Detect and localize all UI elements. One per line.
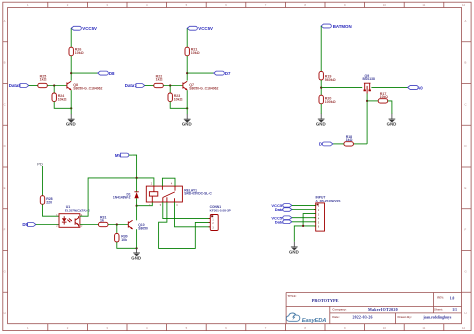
ground (Q10)	[131, 248, 141, 261]
svg-text:A0: A0	[417, 85, 423, 90]
svg-text:VCC5V: VCC5V	[198, 26, 213, 31]
transistor Q10 S8050	[128, 220, 148, 230]
svg-text:1k: 1k	[100, 219, 104, 223]
svg-text:GND: GND	[131, 255, 141, 260]
wire opto pin3 to R31	[80, 224, 99, 226]
svg-text:560kΩ: 560kΩ	[325, 78, 336, 82]
wire MV down to coil rail	[132, 155, 137, 178]
svg-text:H: H	[4, 311, 6, 315]
wire gate to R18	[353, 143, 367, 145]
frame row ticks left	[3, 42, 8, 293]
transistor Q9 BSS138	[363, 74, 375, 94]
wire junction down to R24	[53, 86, 55, 94]
node base/R24 junction	[53, 84, 55, 86]
connector CONN1 KF301-5.08-3P	[209, 205, 231, 230]
svg-text:Company:: Company:	[332, 308, 346, 312]
svg-text:12: 12	[462, 3, 466, 7]
wire collector to D8	[71, 72, 98, 74]
wire relay pin to CONN1 pin3	[175, 202, 211, 227]
svg-text:GND: GND	[182, 122, 192, 127]
node coil return junction	[136, 205, 138, 207]
svg-text:GND: GND	[66, 122, 76, 127]
svg-text:PD: PD	[37, 161, 43, 166]
svg-text:10kΩ: 10kΩ	[191, 51, 200, 55]
wire R25 to Q8 base	[47, 85, 66, 87]
svg-text:TITLE:: TITLE:	[288, 294, 297, 298]
title block Sheet label	[434, 308, 443, 312]
wire junction down to R23	[169, 86, 171, 94]
resistor R18 1k	[344, 135, 354, 146]
svg-text:GND: GND	[289, 249, 299, 254]
netflag D6	[319, 142, 333, 147]
node gate/R17 junction	[366, 100, 368, 102]
wire VCC5V to R26	[70, 29, 72, 48]
netflag VCC5V (INPUT pin4)	[271, 215, 292, 220]
svg-text:11: 11	[422, 326, 425, 330]
wire D5 to opto pin2	[36, 224, 59, 226]
wire R24 to emitter line	[54, 102, 71, 109]
wire gate to R17	[367, 100, 378, 102]
svg-text:VCC5V: VCC5V	[82, 26, 97, 31]
netflag VCC5V (INPUT pin1)	[271, 203, 292, 208]
wire R28 to opto pin1	[43, 204, 60, 216]
svg-text:10kΩ: 10kΩ	[174, 98, 183, 102]
svg-text:GND: GND	[387, 121, 397, 126]
svg-text:11: 11	[422, 3, 425, 7]
svg-text:PROTOTYPE: PROTOTYPE	[312, 298, 339, 303]
wire junction down to R30	[116, 225, 118, 234]
netflag MV	[115, 153, 132, 158]
resistor R20 100k	[319, 95, 336, 104]
svg-text:S8050: S8050	[138, 226, 148, 230]
ground (R20)	[316, 114, 326, 127]
relay RELAY1 SRD-05VDC-SL-C	[146, 183, 212, 207]
resistor R26 10k	[69, 47, 84, 56]
title block title value PROTOTYPE	[312, 298, 339, 303]
netflag A0	[408, 85, 424, 90]
svg-text:KF301-5.08-3P: KF301-5.08-3P	[210, 209, 231, 213]
resistor R21 10k	[185, 47, 200, 56]
node collector Q7 / D7	[186, 72, 188, 74]
EasyEDA logo	[286, 313, 326, 324]
netflag Data8 (INPUT pin2)	[275, 207, 292, 212]
svg-text:10kΩ: 10kΩ	[58, 98, 67, 102]
svg-text:Date:: Date:	[332, 315, 339, 319]
resistor R22 1k	[154, 74, 164, 87]
svg-text:Sheet:: Sheet:	[434, 308, 443, 312]
svg-text:100kΩ: 100kΩ	[325, 100, 336, 104]
wire R30 to emitter rail	[117, 242, 137, 248]
node emitter junction Q8	[70, 107, 72, 109]
node divider junction	[320, 87, 322, 89]
wire coil return to relay pin	[137, 202, 153, 206]
svg-text:EL357N(C)(TA)-G: EL357N(C)(TA)-G	[65, 209, 91, 213]
wire Data8 to R25	[29, 85, 38, 87]
resistor R30 10k	[115, 233, 128, 242]
wire Q9 gate down	[366, 94, 368, 144]
wire relay NC bridge	[162, 178, 175, 186]
wire relay NO loop to CONN1 pin2	[159, 202, 211, 248]
wire PD to R28	[42, 166, 44, 196]
resistor R28 220	[40, 196, 52, 205]
node emitter junction Q7	[186, 107, 188, 109]
diode D1 1N4148W-2	[113, 178, 139, 206]
frame column ticks top	[48, 2, 444, 7]
svg-text:REV:: REV:	[437, 296, 444, 300]
svg-text:BSS138: BSS138	[363, 77, 375, 81]
frame row ticks right	[462, 42, 472, 293]
wire VCC5V to pin4	[292, 217, 316, 219]
wire R18 to D6	[333, 143, 344, 145]
svg-text:S8050-G_C164062: S8050-G_C164062	[73, 87, 102, 91]
svg-text:SRD-05VDC-SL-C: SRD-05VDC-SL-C	[184, 192, 212, 196]
svg-text:EasyEDA: EasyEDA	[302, 318, 326, 324]
svg-text:1/1: 1/1	[452, 308, 457, 312]
node base/R30 junction	[116, 223, 118, 225]
title block lines	[286, 293, 461, 324]
svg-text:Data7: Data7	[125, 83, 138, 88]
title block Date label	[332, 315, 339, 319]
wire D1 junction to Q10 collector	[136, 206, 138, 218]
title block REV label	[437, 296, 444, 300]
title block TITLE label	[288, 294, 297, 298]
net label PD	[37, 161, 43, 166]
svg-text:1kΩ: 1kΩ	[156, 78, 163, 82]
frame column ticks bottom	[48, 324, 444, 331]
input port D5	[22, 222, 36, 227]
svg-text:Data8: Data8	[9, 83, 22, 88]
resistor R25 1k	[38, 74, 48, 87]
svg-text:A: A	[465, 19, 467, 23]
title block date value	[353, 315, 373, 319]
svg-text:G: G	[4, 270, 6, 274]
svg-text:10kΩ: 10kΩ	[75, 51, 84, 55]
wire BATMON to R19	[320, 26, 322, 71]
svg-text:MakerIOT2020: MakerIOT2020	[368, 307, 398, 312]
title block sheet value	[452, 308, 457, 312]
svg-text:F: F	[4, 228, 6, 232]
svg-text:1kΩ: 1kΩ	[40, 78, 47, 82]
wire R22 to Q7 base	[163, 85, 182, 87]
svg-text:10k: 10k	[121, 238, 127, 242]
svg-text:D: D	[4, 144, 6, 148]
node collector Q8 / D8	[70, 72, 72, 74]
svg-text:Drawn By:: Drawn By:	[398, 315, 412, 319]
svg-text:GND: GND	[316, 121, 326, 126]
wire pin3 to ground rail	[303, 214, 316, 226]
node MV rail junction	[136, 177, 138, 179]
wire Q8 emitter to GND	[70, 90, 72, 114]
svg-text:G: G	[465, 270, 467, 274]
wire R31 to Q10 base	[108, 224, 128, 226]
svg-text:2022-03-26: 2022-03-26	[353, 315, 373, 319]
svg-text:D7: D7	[225, 71, 231, 76]
svg-text:B: B	[465, 61, 467, 65]
title block Drawn By label	[398, 315, 412, 319]
wire Q9 source to A0	[371, 87, 407, 89]
netflag BATMON	[321, 24, 352, 29]
wire VCC5V to R21	[186, 29, 188, 48]
resistor R31 1k	[99, 215, 109, 226]
wire Q7 emitter to GND	[186, 90, 188, 114]
resistor R23 10k	[168, 93, 183, 102]
wire R21 to Q7 collector	[186, 56, 188, 81]
input port Data8	[9, 83, 29, 88]
svg-text:A: A	[4, 19, 6, 23]
netflag Data7 (INPUT pin5)	[275, 219, 292, 224]
node ground rail junction	[302, 225, 304, 227]
svg-text:1kΩ: 1kΩ	[346, 138, 353, 142]
svg-text:10: 10	[383, 326, 387, 330]
ground (Q8)	[66, 114, 76, 127]
wire collector to D7	[187, 72, 214, 74]
wire opto pin4 up to rail	[80, 178, 154, 216]
svg-text:A_XB-2540WV2S: A_XB-2540WV2S	[316, 199, 341, 203]
wire pin6 to ground rail	[294, 226, 315, 242]
netflag VCC5V (circuit Q8)	[71, 26, 97, 31]
resistor R24 10k	[52, 93, 67, 102]
svg-text:220: 220	[46, 201, 52, 205]
transistor Q8	[66, 81, 102, 90]
wire VCC5V to pin1	[292, 204, 316, 206]
title block company value	[368, 307, 398, 312]
netflag D8	[98, 71, 115, 76]
ground (R17)	[387, 114, 397, 127]
input port Data7	[125, 83, 145, 88]
wire R20 to GND	[320, 104, 322, 114]
netflag D7	[214, 71, 231, 76]
svg-text:D: D	[465, 144, 467, 148]
connector INPUT A_XB-2540WV2S	[314, 196, 341, 231]
wire R19 to R20	[320, 80, 322, 95]
svg-text:E: E	[4, 186, 6, 190]
svg-text:1.0: 1.0	[450, 296, 455, 300]
svg-text:E: E	[465, 186, 467, 190]
svg-text:jean.redelinghuys: jean.redelinghuys	[422, 315, 451, 319]
resistor R17 10k	[378, 92, 388, 103]
svg-text:12: 12	[462, 326, 466, 330]
title block Company label	[332, 308, 346, 312]
wire Q10 collector	[136, 218, 138, 220]
wire Data7 to R22	[145, 85, 154, 87]
wire Q10 emitter to GND	[136, 229, 138, 248]
wire R17 to GND	[388, 101, 392, 114]
svg-text:C: C	[4, 103, 6, 107]
svg-text:B: B	[4, 61, 6, 65]
wire R23 to emitter line	[170, 102, 187, 109]
svg-text:S8050-G_C164062: S8050-G_C164062	[189, 87, 218, 91]
title block drawn-by value	[422, 315, 451, 319]
netflag VCC5V (circuit Q7)	[187, 26, 213, 31]
ground (Q7)	[182, 114, 192, 127]
wire relay common to CONN1 pin1	[163, 202, 211, 219]
svg-text:H: H	[465, 311, 467, 315]
transistor Q7	[182, 81, 218, 90]
node emitter junction Q10	[136, 247, 138, 249]
resistor R19 560k	[319, 71, 336, 81]
optocoupler U1 EL357N	[56, 205, 90, 228]
node base/R23 junction	[169, 84, 171, 86]
wire Data7 to pin5	[292, 221, 316, 223]
wire R26 to Q8 collector	[70, 56, 72, 81]
title block rev value	[450, 296, 455, 300]
svg-text:10kΩ: 10kΩ	[380, 95, 389, 99]
svg-text:1N4148W-2: 1N4148W-2	[113, 196, 131, 200]
svg-text:BATMON: BATMON	[333, 24, 352, 29]
svg-text:10: 10	[383, 3, 387, 7]
svg-text:C: C	[465, 103, 467, 107]
svg-text:F: F	[465, 228, 467, 232]
svg-text:D8: D8	[109, 71, 115, 76]
ground (INPUT)	[289, 242, 299, 255]
wire Data8 to pin2	[292, 209, 316, 211]
wire divider to Q9 drain	[321, 87, 362, 89]
